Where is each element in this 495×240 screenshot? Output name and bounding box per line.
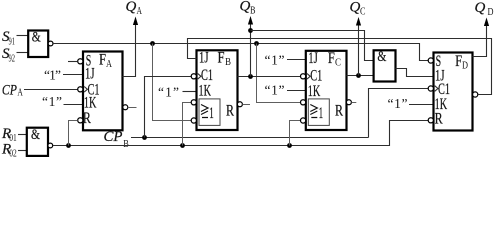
wire QB rail to AND gate <box>248 28 374 60</box>
svg-text:R: R <box>335 103 343 120</box>
flip-flop FA <box>78 52 123 131</box>
svg-text:1: 1 <box>319 105 324 122</box>
svg-text:C: C <box>360 7 366 18</box>
svg-text:D: D <box>488 7 494 18</box>
svg-text:92: 92 <box>9 54 16 65</box>
svg-text:C1: C1 <box>310 68 322 85</box>
svg-text:F: F <box>218 50 225 67</box>
svg-text:“1”: “1” <box>44 68 61 83</box>
label "1" L3 (FB 1K) <box>158 85 197 100</box>
wire FD Q output to QD arrow <box>473 18 490 57</box>
FB Qbar stub <box>237 102 250 107</box>
svg-text:“1”: “1” <box>158 85 179 100</box>
output label QC <box>350 0 366 18</box>
svg-text:A: A <box>137 6 143 17</box>
svg-text:“1”: “1” <box>265 83 285 98</box>
wire G3 output to FD 1J <box>396 69 434 77</box>
svg-text:&: & <box>377 49 386 65</box>
node R0 branch to FC reset OR <box>287 121 300 148</box>
AND gate G3 <box>374 49 396 82</box>
wire FA Q output to QA arrow <box>123 17 139 77</box>
svg-text:C: C <box>335 58 341 69</box>
svg-text:C1: C1 <box>201 67 213 84</box>
wire S9 branch to FB reset OR <box>150 41 191 120</box>
S9 set rail wire <box>53 44 428 61</box>
wire FA S stub <box>68 61 78 63</box>
svg-text:CP: CP <box>2 82 17 98</box>
input label R02 <box>1 142 27 160</box>
label CPB <box>104 129 130 150</box>
svg-text:R: R <box>435 111 443 128</box>
label "1" L6 (FD 1K) <box>388 96 434 111</box>
svg-text:&: & <box>32 30 41 46</box>
svg-text:1K: 1K <box>199 83 212 100</box>
svg-text:R: R <box>83 110 91 127</box>
svg-text:B: B <box>250 6 256 17</box>
svg-text:“1”: “1” <box>388 96 408 111</box>
svg-text:B: B <box>123 139 129 150</box>
node CPB branch to FB C1 <box>142 77 191 140</box>
svg-text:1K: 1K <box>308 83 321 100</box>
svg-text:Q: Q <box>126 0 137 15</box>
svg-text:02: 02 <box>9 149 16 160</box>
input label CPA <box>2 82 78 98</box>
wire FC Q output to AND gate <box>347 17 374 78</box>
svg-text:CP: CP <box>104 129 123 145</box>
svg-text:“1”: “1” <box>42 94 62 109</box>
FC Qbar stub <box>346 100 356 105</box>
flip-flop FD <box>428 53 472 131</box>
svg-text:F: F <box>99 52 106 69</box>
node R0 branch to FA R <box>66 121 78 148</box>
label "1" L5 (FC 1K) <box>265 83 306 98</box>
svg-text:1: 1 <box>209 105 214 122</box>
flip-flop FC <box>301 50 347 130</box>
svg-text:1J: 1J <box>308 50 318 67</box>
wire CPB to FD C1 <box>369 89 429 138</box>
output label QA <box>126 0 143 17</box>
svg-text:F: F <box>328 50 335 67</box>
output label QB <box>240 0 256 17</box>
NAND gate G1 (S9 set gate) <box>28 30 53 58</box>
R0 reset rail wire <box>53 121 428 146</box>
svg-text:1J: 1J <box>199 50 209 67</box>
output label QD <box>475 0 494 18</box>
node R0 branch to FB reset OR <box>180 103 191 148</box>
label "1" L4 (FC 1J) <box>265 53 306 68</box>
input label S92 <box>2 46 29 65</box>
input label R01 <box>1 126 27 144</box>
wire S9 branch to FC reset OR <box>254 41 300 102</box>
svg-text:Q: Q <box>350 0 361 16</box>
svg-text:1K: 1K <box>84 95 97 112</box>
CPB rail wire <box>131 137 369 139</box>
svg-text:1J: 1J <box>85 66 95 83</box>
svg-text:R: R <box>226 103 234 120</box>
FA Qbar stub <box>123 105 137 110</box>
svg-text:“1”: “1” <box>265 53 285 68</box>
svg-text:&: & <box>31 127 40 143</box>
flip-flop FB <box>191 50 237 131</box>
label "1" L1 (FA 1J) <box>44 68 83 83</box>
input label S91 <box>2 29 29 48</box>
svg-text:Q: Q <box>240 0 251 15</box>
svg-text:Q: Q <box>475 0 486 16</box>
label "1" L2 (FA 1K) <box>42 94 83 109</box>
svg-text:B: B <box>225 57 231 68</box>
svg-text:A: A <box>17 88 23 99</box>
svg-text:A: A <box>106 59 113 70</box>
svg-text:D: D <box>462 61 468 72</box>
NAND gate G2 (R0 reset gate) <box>27 127 53 156</box>
wire FB Q output to FC clock <box>238 16 301 79</box>
wire FD Qbar feedback to FB 1J <box>188 39 492 98</box>
